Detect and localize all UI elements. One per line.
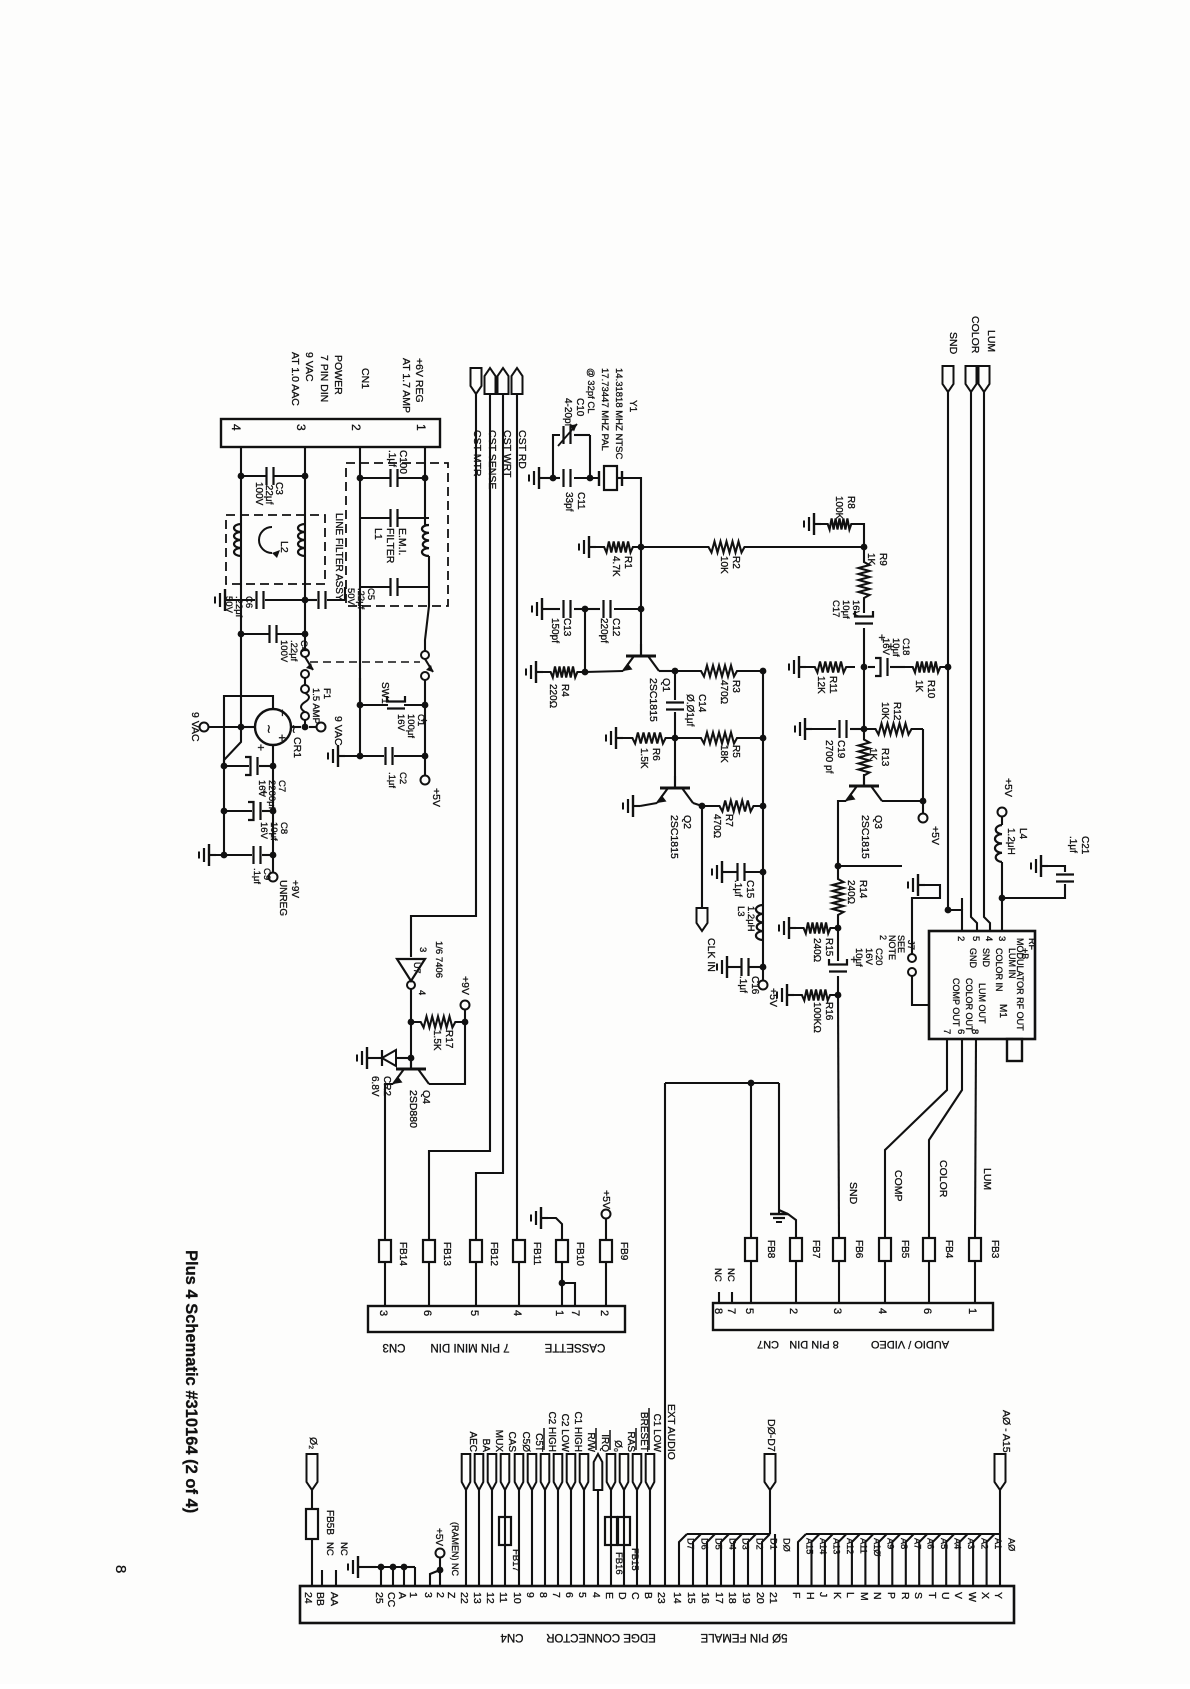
wire BA xyxy=(478,1490,480,1586)
svg-text:F: F xyxy=(790,1592,802,1598)
svg-text:R6: R6 xyxy=(650,748,661,761)
capacitor C4 xyxy=(238,631,245,638)
wire pin2 column xyxy=(359,447,361,756)
svg-text:2: 2 xyxy=(434,1592,446,1598)
svg-text:3: 3 xyxy=(996,936,1007,941)
svg-text:CAS: CAS xyxy=(506,1431,517,1452)
svg-text:50V: 50V xyxy=(223,596,234,614)
ferrite bead FB11 xyxy=(513,1240,525,1262)
svg-text:C14: C14 xyxy=(696,694,707,713)
wire CST WRT xyxy=(476,394,503,1240)
svg-text:220pf: 220pf xyxy=(598,618,609,643)
svg-text:K: K xyxy=(831,1592,843,1599)
svg-text:R5: R5 xyxy=(730,745,741,758)
resistor R2 xyxy=(641,542,812,553)
svg-text:470Ω: 470Ω xyxy=(718,680,729,704)
svg-text:D1: D1 xyxy=(769,1538,779,1550)
A bus trunk xyxy=(999,1490,1001,1534)
resistor R17 xyxy=(411,1017,465,1028)
connector CN7 box xyxy=(713,1303,993,1330)
svg-text:3: 3 xyxy=(831,1308,843,1314)
svg-text:Z: Z xyxy=(445,1592,457,1599)
svg-text:BRESET: BRESET xyxy=(638,1412,649,1452)
ground audio xyxy=(778,1210,780,1214)
resistor R13 xyxy=(859,729,870,786)
svg-text:Q4: Q4 xyxy=(420,1090,432,1104)
svg-text:J: J xyxy=(817,1592,829,1597)
svg-text:DØ-D7: DØ-D7 xyxy=(765,1419,777,1452)
svg-text:FB13: FB13 xyxy=(441,1242,452,1266)
wire FB13 to pin6 xyxy=(428,1262,430,1306)
D bus trunk xyxy=(769,1490,771,1534)
svg-text:FB8: FB8 xyxy=(765,1240,776,1259)
ground C16 xyxy=(727,966,734,968)
capacitor C5 xyxy=(305,599,317,601)
svg-text:C1 HIGH: C1 HIGH xyxy=(572,1411,583,1452)
ground C15 xyxy=(722,871,729,873)
bus bit A7 xyxy=(906,1534,914,1586)
bus bit D2 xyxy=(748,1534,756,1586)
svg-text:C2 HIGH: C2 HIGH xyxy=(546,1411,557,1452)
svg-text:2SC1815: 2SC1815 xyxy=(668,815,680,859)
transistor Q4 2SD880 xyxy=(396,1068,426,1071)
EXT AUDIO line xyxy=(664,1083,666,1586)
svg-text:−: − xyxy=(275,709,290,717)
svg-text:4: 4 xyxy=(229,424,243,431)
svg-text:+6V REG: +6V REG xyxy=(413,358,425,403)
svg-text:16V: 16V xyxy=(880,638,891,656)
wire Q3 emitter xyxy=(838,801,846,866)
svg-text:Y: Y xyxy=(992,1592,1004,1599)
svg-text:FB7: FB7 xyxy=(810,1240,821,1259)
svg-text:18K: 18K xyxy=(718,745,729,763)
svg-text:R1: R1 xyxy=(622,556,633,569)
svg-text:∼: ∼ xyxy=(287,724,301,734)
resistor R4 xyxy=(543,667,585,678)
wire AEC xyxy=(465,1490,467,1586)
wire IRQ xyxy=(597,1490,599,1586)
svg-text:240Ω: 240Ω xyxy=(811,938,822,962)
ferrite bead FB5 xyxy=(879,1238,891,1261)
resistor R8 xyxy=(821,519,858,530)
+5V terminal edge xyxy=(436,1549,445,1558)
wire Q1 collector xyxy=(659,670,675,672)
wire C5T xyxy=(531,1490,533,1586)
svg-text:9 VAC: 9 VAC xyxy=(332,716,344,746)
wire R12 node xyxy=(863,667,865,729)
inductor L3 xyxy=(756,905,763,940)
svg-text:EXT AUDIO: EXT AUDIO xyxy=(665,1404,677,1460)
wire pin4 jog xyxy=(224,727,241,766)
svg-text:Ø₀: Ø₀ xyxy=(612,1440,623,1452)
svg-text:A: A xyxy=(396,1592,408,1599)
bus bit A1 xyxy=(987,1534,995,1586)
ferrite bead FB3 xyxy=(969,1238,981,1261)
svg-text:+5V: +5V xyxy=(1002,778,1014,797)
wire FB8 to pin5 xyxy=(750,1261,752,1303)
inverter U7 1/6 7406 xyxy=(397,959,425,981)
svg-text:FB17: FB17 xyxy=(510,1549,521,1572)
svg-text:23: 23 xyxy=(655,1592,667,1604)
svg-text:100KΩ: 100KΩ xyxy=(811,1002,822,1033)
capacitor C17 xyxy=(855,622,873,624)
wire audio horizontal xyxy=(665,1082,779,1084)
svg-text:2SD880: 2SD880 xyxy=(407,1090,419,1128)
bus bit A2 xyxy=(973,1534,981,1586)
svg-text:R14: R14 xyxy=(857,880,868,899)
svg-text:AA: AA xyxy=(328,1592,340,1606)
svg-text:2: 2 xyxy=(598,1310,610,1316)
wire Q1 emitter xyxy=(585,671,623,672)
svg-text:BB: BB xyxy=(314,1592,326,1606)
bus bit D3 xyxy=(734,1534,742,1586)
wire FB5 to pin4 xyxy=(884,1261,886,1303)
svg-text:FB3: FB3 xyxy=(989,1240,1000,1259)
wire COLOR line xyxy=(971,392,977,931)
svg-text:NC: NC xyxy=(324,1542,335,1556)
svg-text:13: 13 xyxy=(471,1592,483,1604)
svg-text:AT 1.0 AAC: AT 1.0 AAC xyxy=(289,352,301,406)
svg-text:19: 19 xyxy=(740,1592,752,1604)
capacitor C100 xyxy=(360,477,391,479)
svg-text:+9V: +9V xyxy=(289,880,300,898)
crystal Y1 xyxy=(598,471,600,486)
svg-text:17.73447 MHZ PAL: 17.73447 MHZ PAL xyxy=(599,368,610,451)
resistor R16 xyxy=(794,990,838,1001)
wire pin4 column xyxy=(240,447,242,727)
svg-text:5: 5 xyxy=(576,1592,588,1598)
svg-text:1/6 7406: 1/6 7406 xyxy=(433,941,444,978)
svg-text:R: R xyxy=(899,1592,911,1600)
svg-text:3: 3 xyxy=(417,947,428,952)
svg-text:1.2μH: 1.2μH xyxy=(1005,828,1016,855)
ground Q2 emitter xyxy=(640,803,657,806)
wire FB4 to pin6 xyxy=(928,1261,930,1303)
capacitor C8 xyxy=(223,766,225,811)
line filter assy dashed box xyxy=(226,515,325,584)
capacitor C12 xyxy=(582,606,589,613)
transistor Q1 2SC1815 xyxy=(626,655,656,658)
svg-text:FB15: FB15 xyxy=(629,1548,640,1571)
svg-text:C: C xyxy=(629,1592,641,1600)
svg-text:33pf: 33pf xyxy=(563,492,574,512)
svg-text:E: E xyxy=(603,1592,615,1599)
svg-text:+5V: +5V xyxy=(430,788,442,807)
resistor R1 xyxy=(596,542,641,553)
svg-text:C2: C2 xyxy=(397,772,408,784)
wire +5V column xyxy=(424,680,426,775)
svg-text:RAS: RAS xyxy=(625,1431,636,1452)
switch SW1 xyxy=(301,649,309,657)
svg-text:14: 14 xyxy=(671,1592,683,1604)
svg-text:R15: R15 xyxy=(823,938,834,957)
svg-text:1K: 1K xyxy=(867,748,878,761)
svg-text:U7: U7 xyxy=(412,962,422,974)
CLK IN terminal xyxy=(701,806,703,908)
svg-text:U: U xyxy=(939,1592,951,1600)
svg-text:7: 7 xyxy=(569,1310,581,1316)
capacitor C20 xyxy=(829,970,847,972)
svg-text:10K: 10K xyxy=(718,556,729,574)
svg-text:16V: 16V xyxy=(258,822,269,840)
ferrite bead FB9 xyxy=(600,1240,612,1262)
bus bit A10 xyxy=(865,1534,873,1586)
wire C5&#216; xyxy=(518,1490,520,1586)
capacitor C14 xyxy=(674,671,676,700)
svg-text:6: 6 xyxy=(921,1308,933,1314)
svg-text:F1: F1 xyxy=(321,688,332,699)
svg-text:SND: SND xyxy=(847,1182,859,1205)
svg-text:+: + xyxy=(257,789,271,796)
svg-text:8: 8 xyxy=(712,1308,724,1314)
svg-text:20: 20 xyxy=(754,1592,766,1604)
svg-text:FB10: FB10 xyxy=(574,1242,585,1266)
svg-text:11: 11 xyxy=(497,1592,509,1603)
wire RAS xyxy=(623,1490,625,1586)
svg-text:C12: C12 xyxy=(610,618,621,637)
wire C1 row xyxy=(357,702,364,709)
capacitor EMI bottom xyxy=(360,586,391,588)
svg-text:R16: R16 xyxy=(823,1002,834,1021)
svg-text:1: 1 xyxy=(414,424,428,431)
wire pin1 column xyxy=(424,447,426,525)
capacitor C16 xyxy=(734,966,741,968)
resistor R3 xyxy=(675,666,763,677)
capacitor C3 xyxy=(241,475,267,477)
svg-text:.1μf: .1μf xyxy=(251,868,262,884)
svg-text:1.5K: 1.5K xyxy=(431,1030,442,1051)
svg-text:FB14: FB14 xyxy=(397,1242,408,1266)
svg-text:IRQ: IRQ xyxy=(599,1434,610,1452)
svg-text:CR2: CR2 xyxy=(381,1076,392,1096)
svg-text:T: T xyxy=(926,1592,938,1599)
svg-text:.1μf: .1μf xyxy=(737,976,748,993)
bus bit A0 xyxy=(999,1534,1001,1586)
bus bit D&#216; xyxy=(774,1534,776,1586)
svg-text:1.5 AMP: 1.5 AMP xyxy=(310,688,321,724)
svg-text:Q2: Q2 xyxy=(681,815,693,829)
bus bit D1 xyxy=(762,1534,770,1586)
svg-text:2: 2 xyxy=(787,1308,799,1314)
capacitor EMI top xyxy=(360,517,391,519)
svg-text:AEC: AEC xyxy=(467,1431,478,1452)
wire FB8 feed xyxy=(750,1083,752,1238)
svg-text:L1: L1 xyxy=(372,528,384,540)
wire C2 LOW xyxy=(557,1490,559,1586)
wire C2 HIGH xyxy=(544,1490,546,1586)
bus bit D4 xyxy=(721,1534,729,1586)
bus bit A15 xyxy=(798,1534,806,1586)
svg-text:MODULATOR RF OUT: MODULATOR RF OUT xyxy=(1015,938,1025,1031)
wire emitter node right xyxy=(838,865,902,867)
capacitor C18 xyxy=(886,658,888,676)
svg-text:25: 25 xyxy=(373,1592,385,1604)
svg-text:NC: NC xyxy=(712,1268,723,1282)
svg-text:LUM: LUM xyxy=(985,330,997,352)
svg-text:AUDIO / VIDEO: AUDIO / VIDEO xyxy=(870,1338,949,1350)
svg-text:COMP OUT: COMP OUT xyxy=(951,978,961,1027)
wire COLOR out xyxy=(929,1039,962,1238)
svg-text:15: 15 xyxy=(685,1592,697,1604)
transistor Q2 2SC1815 xyxy=(674,738,676,788)
ground C19 xyxy=(805,728,812,730)
wire audio ground drop xyxy=(778,1083,780,1210)
svg-text:C15: C15 xyxy=(744,880,755,899)
svg-text:2: 2 xyxy=(878,935,888,940)
svg-text:COLOR: COLOR xyxy=(937,1160,949,1198)
svg-text:6: 6 xyxy=(563,1592,575,1598)
svg-text:150pf: 150pf xyxy=(549,618,560,643)
9VAC left terminal xyxy=(200,723,209,732)
svg-text:FB4: FB4 xyxy=(943,1240,954,1259)
svg-text:L: L xyxy=(844,1592,856,1598)
wire FB11 to pin4 xyxy=(518,1262,520,1306)
svg-text:COMP: COMP xyxy=(892,1170,904,1202)
svg-text:10K: 10K xyxy=(879,702,890,720)
svg-text:Plus 4 Schematic #310164 (2 of: Plus 4 Schematic #310164 (2 of 4) xyxy=(182,1250,200,1513)
ferrite bead FB4 xyxy=(923,1238,935,1261)
svg-text:Y1: Y1 xyxy=(627,400,638,413)
wire BRESET xyxy=(636,1490,638,1586)
svg-text:3: 3 xyxy=(377,1310,389,1316)
svg-text:V: V xyxy=(952,1592,964,1599)
svg-text:R7: R7 xyxy=(723,814,734,827)
svg-text:C10: C10 xyxy=(574,398,585,417)
svg-text:220Ω: 220Ω xyxy=(547,684,558,708)
resistor R5 xyxy=(675,733,763,744)
wire CR1 top loop xyxy=(224,696,273,766)
svg-text:FB12: FB12 xyxy=(488,1242,499,1266)
ground C21 xyxy=(1048,866,1065,872)
svg-text:50V: 50V xyxy=(345,588,356,606)
svg-text:240Ω: 240Ω xyxy=(845,880,856,904)
bus bit A5 xyxy=(933,1534,941,1586)
svg-text:R17: R17 xyxy=(443,1030,454,1049)
ground edge pins xyxy=(358,1566,365,1568)
ground R8 xyxy=(814,523,821,525)
svg-text:COLOR: COLOR xyxy=(969,316,981,354)
svg-text:FB16: FB16 xyxy=(613,1552,624,1575)
svg-text:12: 12 xyxy=(484,1592,496,1604)
capacitor C6 xyxy=(225,599,232,601)
svg-text:24: 24 xyxy=(302,1592,314,1604)
svg-text:FB5: FB5 xyxy=(899,1240,910,1259)
wire SND line xyxy=(947,392,949,910)
svg-text:6: 6 xyxy=(421,1310,433,1316)
wire Q4 emitter to FB14 xyxy=(385,1084,393,1240)
+5V terminal L4 xyxy=(998,808,1007,817)
svg-text:FB6: FB6 xyxy=(853,1240,864,1259)
wire R/W xyxy=(583,1490,585,1586)
svg-text:7 PIN MINI DIN: 7 PIN MINI DIN xyxy=(430,1341,509,1353)
svg-text:4-20pf: 4-20pf xyxy=(562,398,573,427)
wire &#216;&#8320; xyxy=(610,1490,612,1586)
svg-text:S: S xyxy=(912,1592,924,1599)
svg-text:M1: M1 xyxy=(997,1004,1008,1018)
transistor Q3 2SC1815 xyxy=(849,785,879,788)
svg-text:CLK IN: CLK IN xyxy=(705,938,717,972)
svg-text:9 VAC: 9 VAC xyxy=(189,712,201,742)
svg-text:AT 1.7 AMP: AT 1.7 AMP xyxy=(400,358,412,413)
svg-text:SND: SND xyxy=(947,332,959,355)
svg-text:7: 7 xyxy=(941,1029,952,1034)
svg-text:X: X xyxy=(979,1592,991,1599)
wire pin3 column xyxy=(304,447,306,651)
resistor R11 xyxy=(806,662,855,673)
svg-text:5: 5 xyxy=(743,1308,755,1314)
svg-text:.1μf: .1μf xyxy=(732,880,743,897)
ferrite bead FB15 xyxy=(618,1517,630,1545)
svg-text:C1 LOW: C1 LOW xyxy=(651,1414,662,1453)
svg-text:L3: L3 xyxy=(735,906,746,917)
svg-text:CN4: CN4 xyxy=(500,1631,524,1643)
ferrite bead FB14 xyxy=(379,1240,391,1262)
svg-text:1K: 1K xyxy=(913,680,924,693)
bus bit D5 xyxy=(707,1534,715,1586)
+5V terminal rail xyxy=(759,981,768,990)
svg-text:C19: C19 xyxy=(835,740,846,759)
svg-text:L4: L4 xyxy=(1017,828,1028,840)
ground C2 xyxy=(338,755,345,757)
svg-text:A1: A1 xyxy=(993,1538,1003,1549)
wire FB5B to pin 24 xyxy=(311,1539,313,1586)
wire LUM line xyxy=(984,392,990,931)
svg-text:4: 4 xyxy=(416,990,427,995)
bus bit A13 xyxy=(825,1534,833,1586)
svg-text:4.7K: 4.7K xyxy=(610,556,621,577)
svg-text:LUM: LUM xyxy=(981,1168,993,1190)
svg-text:7 PIN DIN: 7 PIN DIN xyxy=(318,355,330,402)
svg-text:CN1: CN1 xyxy=(359,368,371,389)
svg-text:(RAMEN) NC: (RAMEN) NC xyxy=(450,1522,460,1576)
+5V terminal power xyxy=(421,776,430,785)
svg-text:R9: R9 xyxy=(877,553,888,566)
svg-text:LINE FILTER ASSY: LINE FILTER ASSY xyxy=(333,513,344,601)
svg-text:BA: BA xyxy=(480,1439,491,1453)
svg-text:9 VAC: 9 VAC xyxy=(303,352,315,382)
svg-text:R8: R8 xyxy=(845,496,856,509)
svg-text:C2 LOW: C2 LOW xyxy=(559,1414,570,1453)
bus bit A4 xyxy=(946,1534,954,1586)
bus bit A3 xyxy=(960,1534,968,1586)
RF OUT tab xyxy=(1007,1039,1022,1061)
svg-text:8: 8 xyxy=(537,1592,549,1598)
ferrite bead FB6 xyxy=(833,1238,845,1261)
9VAC right terminal xyxy=(291,726,301,728)
ground R6 xyxy=(616,737,623,739)
bridge rectifier CR1 xyxy=(255,709,291,745)
ground FB10 xyxy=(541,1217,548,1219)
svg-text:CC: CC xyxy=(385,1592,397,1608)
RF modulator M1 box xyxy=(929,931,1035,1039)
svg-text:MUX: MUX xyxy=(493,1430,504,1453)
wire Q2 collector xyxy=(693,803,710,806)
ferrite bead FB10 xyxy=(556,1240,568,1262)
svg-text:UNREG: UNREG xyxy=(277,880,288,916)
wire FB6 to pin3 xyxy=(838,1261,840,1303)
svg-text:H: H xyxy=(804,1592,816,1600)
svg-text:CN3: CN3 xyxy=(382,1341,405,1353)
svg-text:EDGE CONNECTOR: EDGE CONNECTOR xyxy=(546,1631,656,1643)
svg-text:COLOR OUT: COLOR OUT xyxy=(964,978,974,1032)
svg-text:8: 8 xyxy=(112,1565,129,1573)
svg-text:CASSETTE: CASSETTE xyxy=(544,1341,605,1353)
ferrite bead FB13 xyxy=(423,1240,435,1262)
ferrite bead FB5B xyxy=(311,1490,313,1509)
svg-text:B: B xyxy=(642,1592,654,1599)
edge connector box CN4 50 pin xyxy=(300,1586,1014,1623)
svg-text:C13: C13 xyxy=(561,618,572,637)
